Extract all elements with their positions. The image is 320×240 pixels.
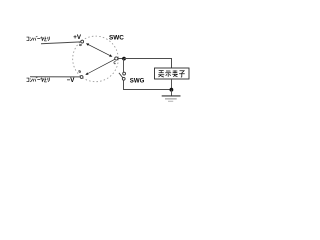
- wire switch to bottom rail: [124, 80, 172, 89]
- wiper arrow a-c (double headed): [86, 43, 113, 56]
- label b: [79, 70, 81, 72]
- switch SWG upper contact: [123, 72, 126, 75]
- svg-text:+V: +V: [73, 34, 82, 41]
- switch SWG lower contact: [122, 77, 125, 80]
- wire from converter to +V terminal: [41, 42, 81, 44]
- junction J2: [170, 88, 174, 92]
- ground bar 2: [165, 98, 177, 100]
- switch SWG blade: [119, 73, 123, 78]
- wire from converter to -V terminal: [30, 76, 80, 78]
- rotary selector SWC dashed circle: [73, 36, 119, 82]
- svg-text:SWC: SWC: [109, 34, 124, 41]
- junction J1: [122, 57, 126, 61]
- terminal a: [81, 40, 84, 43]
- wire junction down to switch: [123, 59, 125, 73]
- ground bar 1: [162, 95, 181, 97]
- label c: [114, 62, 116, 64]
- terminal c: [115, 57, 118, 60]
- wire c to junction: [118, 58, 123, 60]
- svg-text:SWG: SWG: [130, 77, 145, 84]
- ground bar 3: [168, 100, 173, 102]
- label a: [80, 44, 82, 46]
- label コンバータより (top): [27, 36, 50, 41]
- label 表示素子: [158, 70, 185, 77]
- terminal b: [80, 76, 83, 79]
- wire junction to right corner: [124, 59, 172, 69]
- svg-text:−V: −V: [67, 77, 76, 84]
- wire junction to ground: [171, 90, 173, 96]
- wire box to ground junction: [171, 79, 173, 90]
- wiper arrow c-b (head at b): [85, 59, 115, 75]
- label コンバータより (bottom): [27, 77, 50, 82]
- display element box 表示素子: [155, 68, 190, 79]
